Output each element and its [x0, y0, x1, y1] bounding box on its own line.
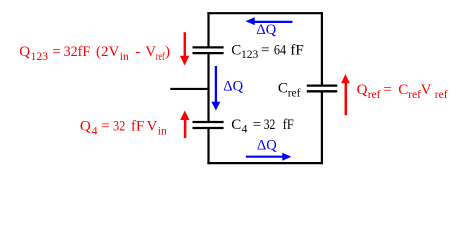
capacitor C123	[193, 47, 224, 53]
arrow Q4 charge, red pointing up	[180, 111, 189, 139]
svg-text:Cref: Cref	[278, 81, 301, 100]
wire left edge upper segment	[207, 12, 209, 47]
svg-text:ΔQ: ΔQ	[257, 138, 277, 154]
capacitor C4	[193, 122, 224, 128]
wire stub node between C123 and C4	[170, 88, 209, 90]
svg-text:C4=32fF: C4=32fF	[231, 117, 294, 136]
arrow Q123 charge, red pointing down	[180, 32, 189, 65]
wire bottom edge of loop	[207, 162, 323, 164]
svg-text:C123=64fF: C123=64fF	[231, 42, 304, 61]
svg-text:Qref=CrefVref: Qref=CrefVref	[357, 82, 448, 101]
wire right edge upper segment	[321, 12, 323, 86]
svg-text:Q123=32fF(2Vin-Vref): Q123=32fF(2Vin-Vref)	[19, 44, 170, 63]
svg-text:Q4=32fFVin: Q4=32fFVin	[80, 119, 167, 138]
arrow dQ bottom, blue pointing right	[246, 153, 292, 161]
arrow dQ top, blue pointing left	[246, 17, 293, 25]
wire left edge lower segment	[207, 128, 209, 164]
capacitor Cref	[307, 86, 338, 92]
svg-text:ΔQ: ΔQ	[223, 79, 243, 95]
wire top edge of loop	[207, 12, 323, 14]
arrow Qref charge, red pointing up	[341, 74, 350, 115]
svg-text:ΔQ: ΔQ	[256, 22, 276, 38]
arrow dQ middle, blue pointing down	[211, 66, 220, 111]
wire left edge middle segment	[207, 53, 209, 122]
wire right edge lower segment	[321, 91, 323, 164]
